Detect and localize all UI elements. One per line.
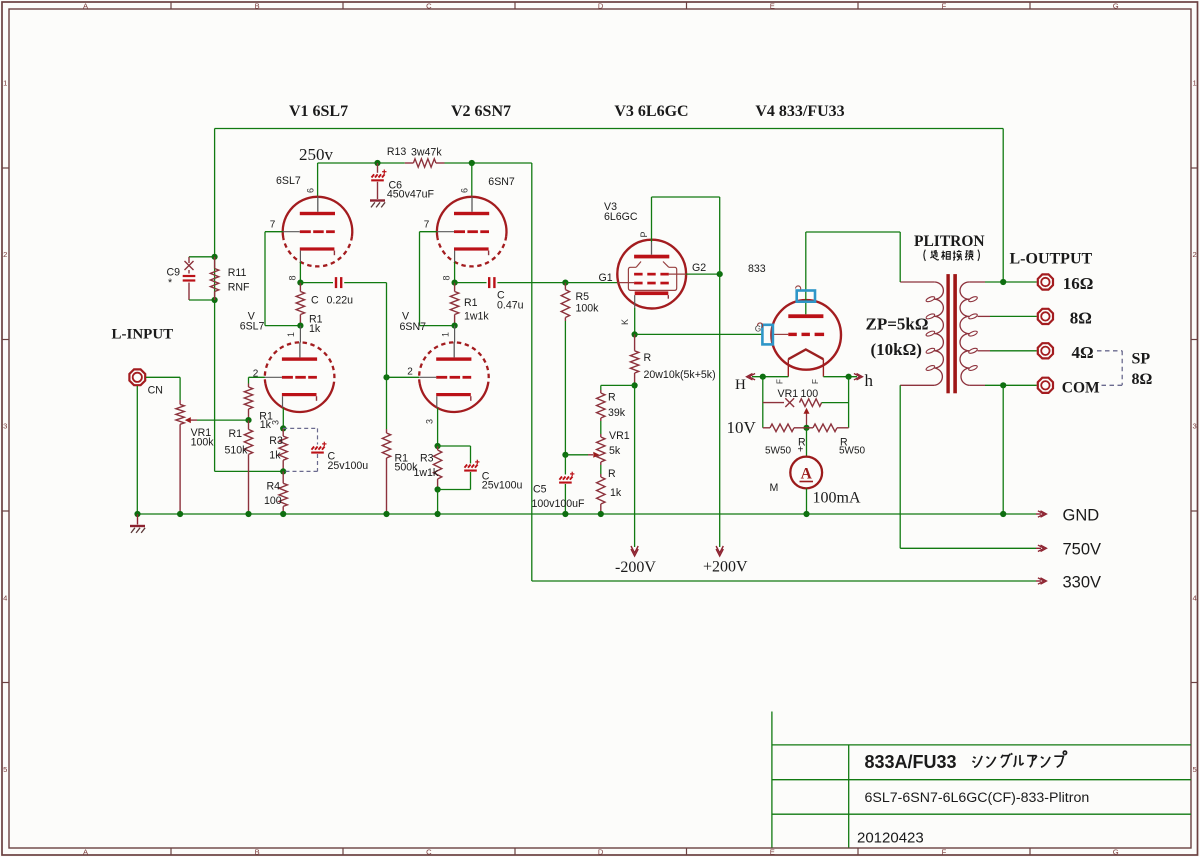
svg-text:VR1: VR1 bbox=[778, 388, 799, 400]
svg-text:100: 100 bbox=[801, 388, 819, 400]
svg-text:3: 3 bbox=[1192, 422, 1196, 431]
svg-text:A: A bbox=[801, 466, 813, 483]
svg-text:F: F bbox=[811, 379, 820, 384]
svg-text:3w47k: 3w47k bbox=[411, 147, 442, 159]
svg-text:R: R bbox=[644, 352, 652, 364]
svg-text:*: * bbox=[168, 277, 172, 289]
svg-text:3: 3 bbox=[3, 422, 7, 431]
svg-text:7: 7 bbox=[424, 220, 430, 231]
svg-text:G2: G2 bbox=[692, 262, 706, 274]
svg-text:R13: R13 bbox=[387, 146, 407, 158]
svg-text:250v: 250v bbox=[299, 145, 334, 164]
svg-text:GND: GND bbox=[1063, 507, 1100, 525]
svg-text:4Ω: 4Ω bbox=[1072, 343, 1094, 362]
svg-text:RNF: RNF bbox=[228, 282, 250, 294]
svg-text:L-OUTPUT: L-OUTPUT bbox=[1010, 251, 1093, 268]
svg-text:CN: CN bbox=[148, 385, 163, 397]
svg-text:R5: R5 bbox=[576, 291, 590, 303]
svg-text:6SN7: 6SN7 bbox=[488, 176, 515, 188]
svg-text:-200V: -200V bbox=[615, 559, 656, 576]
svg-text:L-INPUT: L-INPUT bbox=[112, 327, 174, 343]
svg-text:ZP=5kΩ: ZP=5kΩ bbox=[866, 315, 929, 334]
svg-text:3: 3 bbox=[271, 420, 281, 425]
svg-text:4: 4 bbox=[1192, 593, 1196, 602]
svg-text:5W50: 5W50 bbox=[839, 446, 866, 457]
svg-text:2: 2 bbox=[1192, 250, 1196, 259]
svg-text:4: 4 bbox=[3, 593, 7, 602]
svg-text:M: M bbox=[770, 482, 779, 494]
svg-text:V2 6SN7: V2 6SN7 bbox=[451, 103, 511, 120]
svg-text:1: 1 bbox=[286, 332, 296, 337]
svg-text:SP: SP bbox=[1132, 351, 1151, 368]
svg-text:PLITRON: PLITRON bbox=[914, 233, 985, 250]
svg-text:6SN7: 6SN7 bbox=[400, 321, 427, 333]
svg-text:G: G bbox=[755, 325, 761, 334]
svg-text:0.47u: 0.47u bbox=[497, 300, 524, 312]
svg-text:V3 6L6GC: V3 6L6GC bbox=[614, 103, 688, 120]
svg-text:8: 8 bbox=[288, 275, 298, 280]
svg-text:R1: R1 bbox=[229, 428, 243, 440]
svg-text:20120423: 20120423 bbox=[857, 830, 924, 847]
svg-text:5k: 5k bbox=[609, 445, 621, 457]
svg-text:100k: 100k bbox=[576, 303, 600, 315]
svg-text:F: F bbox=[942, 848, 947, 857]
svg-text:G: G bbox=[1113, 848, 1119, 857]
svg-text:5W50: 5W50 bbox=[765, 446, 792, 457]
svg-text:+: + bbox=[798, 445, 804, 456]
svg-text:R11: R11 bbox=[228, 267, 247, 279]
svg-text:H: H bbox=[735, 377, 746, 393]
svg-text:1k: 1k bbox=[309, 323, 321, 335]
svg-text:V1 6SL7: V1 6SL7 bbox=[289, 103, 348, 120]
svg-text:750V: 750V bbox=[1063, 541, 1102, 559]
svg-text:C: C bbox=[426, 1, 432, 10]
svg-text:D: D bbox=[598, 848, 604, 857]
svg-text:B: B bbox=[255, 848, 260, 857]
svg-text:F: F bbox=[776, 379, 785, 384]
svg-text:R: R bbox=[608, 468, 616, 480]
svg-text:10V: 10V bbox=[727, 418, 757, 437]
svg-text:F: F bbox=[942, 1, 947, 10]
svg-text:5: 5 bbox=[1192, 765, 1196, 774]
svg-text:G: G bbox=[1113, 1, 1119, 10]
svg-text:5: 5 bbox=[3, 765, 7, 774]
svg-text:8: 8 bbox=[442, 275, 452, 280]
svg-text:K: K bbox=[620, 319, 630, 325]
svg-text:1w1k: 1w1k bbox=[464, 311, 489, 323]
svg-text:833A/FU33: 833A/FU33 bbox=[865, 752, 957, 772]
svg-text:V4 833/FU33: V4 833/FU33 bbox=[755, 103, 844, 120]
svg-text:0.22u: 0.22u bbox=[327, 295, 354, 307]
svg-text:6SL7-6SN7-6L6GC(CF)-833-Plitro: 6SL7-6SN7-6L6GC(CF)-833-Plitron bbox=[865, 790, 1090, 806]
svg-text:2: 2 bbox=[407, 367, 413, 378]
svg-text:E: E bbox=[770, 1, 775, 10]
svg-text:P: P bbox=[639, 231, 649, 237]
svg-text:R3: R3 bbox=[269, 435, 283, 447]
svg-text:1: 1 bbox=[3, 79, 7, 88]
svg-text:7: 7 bbox=[270, 220, 276, 231]
svg-text:8Ω: 8Ω bbox=[1070, 309, 1092, 328]
svg-text:R3: R3 bbox=[420, 453, 434, 465]
svg-text:100: 100 bbox=[264, 495, 282, 507]
svg-text:8Ω: 8Ω bbox=[1132, 371, 1153, 388]
svg-text:1: 1 bbox=[441, 332, 451, 337]
svg-text:R4: R4 bbox=[267, 481, 281, 493]
svg-text:D: D bbox=[598, 1, 604, 10]
svg-text:510k: 510k bbox=[225, 445, 249, 457]
svg-text:1w1k: 1w1k bbox=[414, 467, 439, 479]
svg-text:39k: 39k bbox=[608, 407, 626, 419]
svg-text:100v100uF: 100v100uF bbox=[532, 498, 586, 510]
svg-text:2: 2 bbox=[3, 250, 7, 259]
svg-text:20w10k(5k+5k): 20w10k(5k+5k) bbox=[644, 369, 716, 381]
svg-text:25v100u: 25v100u bbox=[482, 480, 523, 492]
svg-text:h: h bbox=[865, 371, 874, 390]
svg-text:25v100u: 25v100u bbox=[328, 460, 369, 472]
svg-text:16Ω: 16Ω bbox=[1063, 274, 1094, 293]
svg-text:1k: 1k bbox=[610, 487, 622, 499]
svg-text:R: R bbox=[608, 392, 616, 404]
svg-text:6L6GC: 6L6GC bbox=[604, 211, 638, 223]
svg-text:VR1: VR1 bbox=[609, 430, 630, 442]
svg-text:C: C bbox=[311, 295, 319, 307]
svg-text:100k: 100k bbox=[191, 437, 215, 449]
svg-text:833: 833 bbox=[748, 263, 766, 275]
svg-text:100mA: 100mA bbox=[813, 490, 861, 507]
svg-text:COM: COM bbox=[1062, 380, 1100, 397]
svg-text:6: 6 bbox=[460, 188, 470, 193]
svg-text:3: 3 bbox=[425, 419, 435, 424]
svg-text:+200V: +200V bbox=[703, 559, 748, 576]
svg-text:R1: R1 bbox=[464, 297, 478, 309]
svg-text:1k: 1k bbox=[269, 450, 281, 462]
svg-text:C5: C5 bbox=[533, 484, 547, 496]
svg-text:(10kΩ): (10kΩ) bbox=[871, 340, 922, 359]
svg-text:6: 6 bbox=[306, 188, 316, 193]
svg-text:6SL7: 6SL7 bbox=[276, 175, 301, 187]
svg-text:B: B bbox=[255, 1, 260, 10]
svg-text:1: 1 bbox=[1192, 79, 1196, 88]
svg-text:C: C bbox=[426, 848, 432, 857]
svg-text:G1: G1 bbox=[599, 272, 613, 284]
svg-text:6SL7: 6SL7 bbox=[240, 321, 265, 333]
svg-text:330V: 330V bbox=[1063, 574, 1102, 592]
svg-text:450v47uF: 450v47uF bbox=[387, 189, 435, 201]
svg-text:E: E bbox=[770, 848, 775, 857]
